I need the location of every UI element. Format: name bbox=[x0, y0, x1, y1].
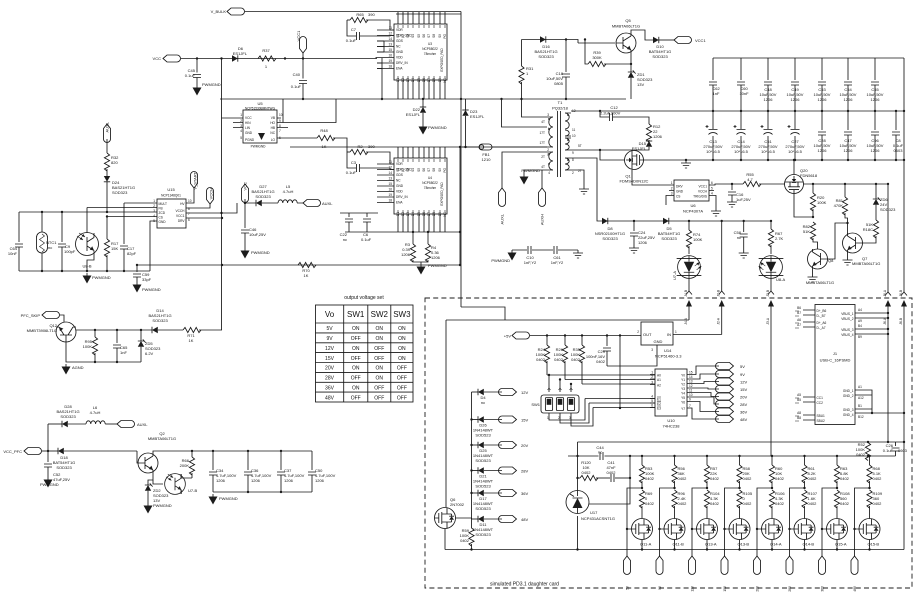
svg-text:6: 6 bbox=[188, 218, 190, 222]
mosfet Q6 2N7002 bbox=[435, 497, 465, 529]
svg-text:AGND: AGND bbox=[72, 365, 84, 370]
svg-text:1206: 1206 bbox=[401, 252, 411, 257]
wire rail to x=888 drop bbox=[887, 184, 889, 292]
resistor R66 bbox=[180, 450, 195, 478]
svg-text:48V: 48V bbox=[325, 395, 335, 401]
svg-text:ON: ON bbox=[352, 346, 360, 352]
svg-text:simulated PD3.1 daughter card: simulated PD3.1 daughter card bbox=[490, 582, 559, 588]
svg-text:U6: U6 bbox=[690, 203, 696, 208]
svg-text:0402: 0402 bbox=[554, 357, 564, 362]
wire Q13-A gate to pill bbox=[692, 488, 707, 556]
wire Y outputs to voltage pills bbox=[687, 366, 719, 375]
svg-text:FB: FB bbox=[159, 207, 163, 211]
svg-text:OFF: OFF bbox=[351, 356, 361, 362]
resistor R57 bbox=[704, 455, 719, 488]
svg-text:36V: 36V bbox=[325, 386, 335, 392]
svg-text:1206: 1206 bbox=[638, 240, 648, 245]
capacitor C48 bbox=[760, 58, 777, 111]
capacitor C13 electrolytic bbox=[703, 111, 722, 160]
wire U14 GND bbox=[607, 345, 657, 366]
svg-text:0805: 0805 bbox=[554, 81, 564, 86]
svg-text:SOD323: SOD323 bbox=[112, 190, 128, 195]
svg-text:T1: T1 bbox=[558, 100, 563, 105]
svg-text:11: 11 bbox=[389, 160, 393, 164]
wire feeder from main into card bbox=[446, 307, 689, 320]
svg-text:nc: nc bbox=[481, 400, 485, 405]
svg-text:E1: E1 bbox=[657, 398, 661, 402]
svg-text:0402: 0402 bbox=[856, 452, 866, 457]
svg-text:PWMGND: PWMGND bbox=[92, 275, 111, 280]
svg-text:NCP51530BMNTWG: NCP51530BMNTWG bbox=[245, 107, 276, 111]
svg-text:10: 10 bbox=[689, 393, 693, 397]
bus y=232 under U4 bbox=[345, 231, 460, 233]
svg-text:1: 1 bbox=[153, 199, 155, 203]
svg-text:0402: 0402 bbox=[808, 476, 818, 481]
svg-text:ON: ON bbox=[376, 326, 384, 332]
wire Q1 gate to U6 DRV bbox=[632, 170, 674, 185]
svg-text:20V: 20V bbox=[756, 585, 760, 592]
svg-text:ON: ON bbox=[376, 366, 384, 372]
wire +5V to E3 drop bbox=[619, 336, 621, 409]
wire U14 IN to arrow bbox=[673, 334, 722, 336]
wire R52/C26 GND tie y=442 bbox=[578, 441, 905, 443]
wire bus99 to primary tap bbox=[502, 99, 548, 127]
wire Q2 emitter down to ZD2 bbox=[148, 473, 153, 485]
capacitor C59 bbox=[133, 264, 161, 293]
svg-text:14: 14 bbox=[388, 171, 392, 175]
resistor R74 bbox=[686, 220, 702, 254]
diode D27 bbox=[251, 184, 274, 206]
wire U5 LO to R48 bbox=[277, 137, 317, 139]
wire pin2 FB left bbox=[87, 207, 157, 209]
svg-text:390: 390 bbox=[368, 144, 375, 149]
wire AUX rail y=203 bbox=[245, 202, 303, 204]
wire pin5 GND down bbox=[150, 221, 157, 271]
svg-text:A1: A1 bbox=[657, 378, 661, 382]
wire C41 up to rail bbox=[629, 456, 631, 478]
diode D17 ladder 36V bbox=[470, 490, 528, 512]
bus y=147 lower primary bbox=[290, 146, 547, 148]
diode D4 ladder 12V bbox=[472, 389, 529, 406]
svg-text:nc: nc bbox=[48, 245, 52, 250]
svg-text:4T: 4T bbox=[541, 120, 545, 124]
resistor R59 bbox=[460, 528, 474, 550]
wire pin3 ZCD left bus bbox=[19, 211, 157, 213]
svg-text:R18C: R18C bbox=[863, 227, 873, 232]
ground earth GND bus bbox=[681, 159, 691, 168]
capacitor C50 bbox=[308, 451, 336, 492]
svg-text:GND_3: GND_3 bbox=[843, 408, 854, 412]
svg-text:1206: 1206 bbox=[216, 478, 226, 483]
svg-text:200K: 200K bbox=[180, 463, 190, 468]
svg-text:0.1uF: 0.1uF bbox=[361, 237, 372, 242]
svg-text:VCC1: VCC1 bbox=[695, 38, 706, 43]
svg-text:17T: 17T bbox=[540, 131, 546, 135]
node pill 5V column bbox=[624, 556, 631, 590]
capacitor C24 bbox=[629, 220, 655, 253]
capacitor C45 bbox=[185, 57, 201, 85]
diode D8 bbox=[595, 218, 625, 241]
ferrite bead FB1 bbox=[462, 144, 547, 162]
opto LED U7-A bbox=[672, 256, 701, 281]
wire U5 HO/HB to right bbox=[277, 99, 336, 128]
wire x=721.7 drop bbox=[721, 221, 723, 291]
capacitor C55 bbox=[867, 58, 884, 111]
resistor R108 bbox=[834, 487, 850, 519]
mosfet Q1 FDMS4D0N12C bbox=[620, 151, 649, 184]
svg-text:OFF: OFF bbox=[351, 336, 361, 342]
svg-text:A9: A9 bbox=[858, 319, 862, 323]
svg-text:4: 4 bbox=[548, 171, 550, 175]
svg-text:S6: S6 bbox=[422, 168, 426, 172]
svg-text:A8: A8 bbox=[797, 411, 801, 415]
resistor R82 bbox=[803, 222, 818, 249]
ground PWMGND transformer bbox=[520, 168, 541, 185]
resistor R105 bbox=[737, 487, 753, 519]
resistor R3 bbox=[401, 231, 421, 262]
wire A1 line bbox=[565, 379, 655, 381]
capacitor C10 bbox=[524, 246, 537, 265]
svg-text:CS: CS bbox=[159, 216, 163, 220]
wire VDD/DRV_IN connections bbox=[376, 41, 384, 99]
wire 2T pin8 down to D8 rail bbox=[571, 158, 599, 221]
svg-text:4T: 4T bbox=[541, 165, 545, 169]
wire Q13-B source to bus bbox=[739, 540, 741, 550]
svg-text:V_BULK: V_BULK bbox=[211, 9, 227, 14]
svg-text:1206: 1206 bbox=[315, 478, 325, 483]
svg-text:CC2: CC2 bbox=[817, 401, 824, 405]
svg-text:2: 2 bbox=[671, 187, 673, 191]
svg-text:R37: R37 bbox=[262, 48, 270, 53]
node VCC connector bbox=[153, 55, 181, 62]
svg-text:6: 6 bbox=[651, 404, 653, 408]
capacitor C3 bbox=[346, 152, 394, 175]
svg-text:18: 18 bbox=[388, 199, 392, 203]
svg-text:3: 3 bbox=[651, 381, 653, 385]
ground earth Q7 bbox=[843, 253, 853, 265]
svg-text:A12: A12 bbox=[858, 396, 864, 400]
capacitor C36 bbox=[244, 450, 272, 492]
ground PWMGND cap bank bbox=[209, 494, 238, 505]
svg-text:S8: S8 bbox=[432, 168, 436, 172]
transistor Q2 MMBTA06LT1G bbox=[137, 431, 176, 473]
svg-text:ON: ON bbox=[398, 356, 406, 362]
transistor Q8 MMBTA06LT1G bbox=[806, 249, 834, 285]
shunt ref U17 NCP431 bbox=[566, 491, 615, 522]
svg-text:AUXL: AUXL bbox=[500, 213, 505, 224]
svg-text:SOD323: SOD323 bbox=[652, 54, 668, 59]
svg-text:Q5: Q5 bbox=[625, 18, 631, 23]
wire U15 VCC1 pin right bbox=[186, 203, 237, 213]
svg-text:28V: 28V bbox=[521, 469, 528, 474]
capacitor C6 bbox=[361, 213, 372, 242]
svg-text:S2: S2 bbox=[401, 168, 405, 172]
svg-text:GND: GND bbox=[159, 220, 167, 224]
svg-text:AUXL: AUXL bbox=[322, 201, 333, 206]
svg-text:100K: 100K bbox=[83, 344, 93, 349]
svg-text:B1: B1 bbox=[858, 404, 862, 408]
wire rail y=221 bbox=[599, 220, 771, 222]
svg-text:19: 19 bbox=[388, 193, 392, 197]
svg-text:13V: 13V bbox=[637, 82, 644, 87]
svg-text:AUXL: AUXL bbox=[105, 121, 110, 132]
svg-text:S8: S8 bbox=[432, 34, 436, 38]
svg-text:15: 15 bbox=[388, 48, 392, 52]
svg-text:48V: 48V bbox=[521, 517, 528, 522]
wire Q14-B gate to pill bbox=[790, 488, 805, 556]
mosfet Q14-A bbox=[762, 519, 783, 547]
capacitor C52 bbox=[40, 451, 70, 488]
svg-text:78mohm: 78mohm bbox=[424, 52, 437, 56]
ic U10 74HC238 bbox=[650, 369, 693, 429]
svg-text:GND_2: GND_2 bbox=[843, 394, 854, 398]
wire SW1 tops to A lines bbox=[549, 375, 571, 392]
diode D11 ladder 48V bbox=[472, 516, 529, 538]
node 5V..48V pills stack bbox=[716, 363, 748, 423]
mosfet Q15-B bbox=[859, 519, 880, 547]
svg-text:NCP431ACSNT1G: NCP431ACSNT1G bbox=[581, 516, 615, 521]
svg-text:10*16.5: 10*16.5 bbox=[788, 149, 803, 154]
node pill 48V column bbox=[851, 556, 858, 592]
svg-text:S3: S3 bbox=[406, 168, 410, 172]
svg-text:1: 1 bbox=[671, 181, 673, 185]
wire Q13-B gate to pill bbox=[725, 488, 740, 556]
wire U17 anode to bus bbox=[577, 516, 579, 550]
wire 2T pin2 to gnd bbox=[571, 170, 584, 186]
svg-text:20V: 20V bbox=[740, 395, 747, 400]
svg-text:20V: 20V bbox=[521, 443, 528, 448]
node AUXL pill vertical bbox=[499, 188, 506, 224]
svg-text:OFF: OFF bbox=[374, 346, 384, 352]
svg-text:MULT: MULT bbox=[159, 202, 167, 206]
mosfet Q13-B bbox=[729, 519, 750, 547]
zener ZD6 bbox=[873, 183, 896, 220]
resistor R52 bbox=[856, 442, 871, 461]
capacitor C46 bbox=[241, 203, 270, 259]
svg-text:12V: 12V bbox=[325, 346, 335, 352]
svg-text:A6: A6 bbox=[797, 318, 801, 322]
opto transistor U7-B bbox=[165, 474, 198, 495]
svg-text:PWMGND: PWMGND bbox=[153, 503, 172, 508]
svg-text:OFF: OFF bbox=[397, 376, 407, 382]
svg-text:A7: A7 bbox=[797, 323, 801, 327]
svg-text:51K: 51K bbox=[803, 229, 810, 234]
capacitor C49 bbox=[787, 58, 804, 111]
svg-text:3: 3 bbox=[671, 192, 673, 196]
svg-text:Y4: Y4 bbox=[681, 392, 685, 396]
svg-text:B8: B8 bbox=[797, 416, 801, 420]
wire Q15-B gate to pill bbox=[855, 488, 870, 556]
svg-text:2.2uF,200V: 2.2uF,200V bbox=[600, 111, 621, 116]
resistor R26 bbox=[554, 334, 568, 379]
svg-text:output voltage set: output voltage set bbox=[344, 295, 384, 301]
svg-text:USB-C_16PSMD: USB-C_16PSMD bbox=[820, 358, 851, 363]
ic U3 left pin stubs bbox=[377, 26, 394, 69]
transformer T1 secondary windings bbox=[565, 109, 582, 175]
svg-text:PWMGND: PWMGND bbox=[491, 258, 510, 263]
svg-text:GND: GND bbox=[396, 184, 404, 188]
svg-text:18: 18 bbox=[388, 65, 392, 69]
wire x888 VBUS down to rail456 bbox=[887, 313, 889, 442]
svg-text:0402: 0402 bbox=[873, 501, 883, 506]
svg-text:HB: HB bbox=[271, 126, 275, 130]
mosfet Q11-B bbox=[664, 519, 685, 547]
svg-text:9V: 9V bbox=[326, 336, 333, 342]
svg-text:1uF,25V: 1uF,25V bbox=[736, 197, 751, 202]
card up arrows through border bbox=[686, 300, 692, 320]
svg-text:DRV: DRV bbox=[178, 219, 186, 223]
svg-text:CS: CS bbox=[676, 195, 680, 199]
svg-text:FDN5618: FDN5618 bbox=[800, 173, 818, 178]
ic U4 bottom pins bbox=[398, 214, 445, 232]
wire Q14-A gate to pill bbox=[757, 488, 772, 556]
svg-text:0.1uF: 0.1uF bbox=[185, 73, 196, 78]
svg-text:J6-B: J6-B bbox=[899, 290, 903, 297]
svg-text:1nF: 1nF bbox=[713, 91, 720, 96]
resistor R31 column bbox=[519, 40, 547, 118]
svg-text:36V: 36V bbox=[821, 585, 825, 592]
svg-text:S1: S1 bbox=[396, 168, 400, 172]
capacitor C47 bbox=[840, 111, 857, 160]
svg-text:D-_A7: D-_A7 bbox=[817, 326, 826, 330]
wire card left drop to Q6 bbox=[445, 320, 447, 507]
ground PWMGND Y-caps bbox=[491, 250, 516, 263]
svg-text:MMBTA06LT1G: MMBTA06LT1G bbox=[612, 24, 640, 29]
svg-text:0.1uF: 0.1uF bbox=[291, 84, 302, 89]
svg-text:15K: 15K bbox=[111, 246, 118, 251]
diode D25 ladder 20V bbox=[470, 442, 528, 464]
svg-text:1: 1 bbox=[240, 113, 242, 117]
svg-text:GND_1: GND_1 bbox=[843, 389, 854, 393]
svg-text:S6: S6 bbox=[422, 34, 426, 38]
svg-text:PWMGND: PWMGND bbox=[521, 168, 540, 173]
svg-text:Y3: Y3 bbox=[681, 387, 685, 391]
svg-text:SW2: SW2 bbox=[371, 310, 389, 319]
svg-text:15V: 15V bbox=[723, 585, 727, 592]
capacitor C60 bbox=[737, 58, 749, 111]
wire U6 CS stub bbox=[666, 191, 674, 206]
ground AGND bbox=[62, 364, 84, 375]
svg-text:10*16.5: 10*16.5 bbox=[734, 149, 749, 154]
svg-text:1206: 1206 bbox=[818, 148, 828, 153]
bus card bottom y=548 bbox=[445, 549, 904, 551]
svg-text:S5: S5 bbox=[417, 168, 421, 172]
capacitor C65 bbox=[113, 329, 128, 362]
ic U3 NCP58022 box bbox=[394, 24, 447, 80]
ground earth U6 bbox=[711, 208, 721, 216]
svg-text:VCC: VCC bbox=[243, 182, 248, 191]
wire cap bank right edge vertical bbox=[903, 58, 905, 292]
svg-text:S1: S1 bbox=[396, 34, 400, 38]
capacitor C40 bbox=[291, 59, 307, 100]
svg-text:15: 15 bbox=[689, 371, 693, 375]
capacitor C7 bbox=[346, 20, 394, 43]
bus y=160 cap bank bottom bbox=[700, 159, 904, 161]
svg-text:11: 11 bbox=[572, 128, 576, 132]
svg-text:C12: C12 bbox=[610, 105, 618, 110]
svg-text:B12: B12 bbox=[858, 415, 864, 419]
svg-text:D+_A6: D+_A6 bbox=[817, 321, 827, 325]
zener ZD1 bbox=[628, 70, 653, 99]
svg-text:1: 1 bbox=[651, 371, 653, 375]
svg-text:0402: 0402 bbox=[710, 501, 720, 506]
resistor R61 bbox=[802, 455, 817, 488]
svg-text:VCCH: VCCH bbox=[698, 190, 708, 194]
svg-text:ES1JFL: ES1JFL bbox=[470, 114, 485, 119]
resistor R67 bbox=[768, 220, 783, 254]
svg-text:GND: GND bbox=[396, 50, 404, 54]
svg-text:ON: ON bbox=[376, 376, 384, 382]
wire y=265 long horizontal bbox=[137, 264, 460, 266]
svg-text:2: 2 bbox=[651, 375, 653, 379]
svg-text:SOD523: SOD523 bbox=[475, 458, 491, 463]
svg-text:10uF,25V: 10uF,25V bbox=[249, 232, 266, 237]
resistor R68 bbox=[867, 455, 882, 488]
svg-text:DRV: DRV bbox=[676, 185, 684, 189]
svg-text:1210: 1210 bbox=[482, 157, 492, 162]
svg-text:0402: 0402 bbox=[460, 538, 470, 543]
svg-text:12V: 12V bbox=[691, 585, 695, 592]
wire Q15-A gate to pill bbox=[822, 488, 837, 556]
svg-text:A0: A0 bbox=[657, 374, 661, 378]
svg-text:J6-A: J6-A bbox=[883, 289, 887, 296]
wire U6 VCC1 to rail bbox=[709, 184, 743, 185]
svg-text:J2-A: J2-A bbox=[717, 317, 721, 324]
svg-text:SOD323: SOD323 bbox=[255, 194, 271, 199]
svg-text:1206: 1206 bbox=[791, 97, 801, 102]
wire ladder feed vertical bbox=[471, 392, 473, 519]
wire Q11-A source to bus bbox=[641, 540, 643, 550]
svg-text:A2: A2 bbox=[657, 384, 661, 388]
wire U5 left stubs bbox=[222, 118, 244, 128]
svg-text:SOD523: SOD523 bbox=[475, 532, 491, 537]
svg-text:V_START: V_START bbox=[193, 171, 198, 189]
wire Q20 right rail y=184 bbox=[804, 183, 889, 185]
bus y=58 cap bank top bbox=[713, 57, 904, 59]
svg-text:SOD323: SOD323 bbox=[60, 414, 76, 419]
svg-text:J3-A: J3-A bbox=[766, 317, 770, 324]
svg-text:PWMGND: PWMGND bbox=[251, 145, 267, 149]
svg-text:NCP58022: NCP58022 bbox=[422, 181, 438, 185]
svg-text:PWMGND: PWMGND bbox=[219, 496, 238, 501]
svg-text:VCC: VCC bbox=[245, 116, 252, 120]
svg-text:PWMGND: PWMGND bbox=[40, 482, 59, 487]
svg-text:VB: VB bbox=[271, 116, 275, 120]
svg-text:5V: 5V bbox=[740, 364, 745, 369]
svg-text:NCP58022: NCP58022 bbox=[422, 47, 438, 51]
svg-text:4.7uH: 4.7uH bbox=[90, 410, 101, 415]
svg-text:100K: 100K bbox=[817, 200, 827, 205]
wire Q5 collector to D10 bbox=[631, 30, 653, 40]
opto transistor U8-B bbox=[76, 208, 99, 272]
svg-text:0603: 0603 bbox=[898, 448, 908, 453]
rail y=456 card bbox=[568, 455, 896, 457]
svg-text:1nF,Y2: 1nF,Y2 bbox=[524, 260, 537, 265]
wire Q6 gate to R59 bbox=[456, 518, 472, 528]
svg-text:Y7: Y7 bbox=[681, 407, 685, 411]
svg-text:NC: NC bbox=[270, 131, 275, 135]
svg-text:820: 820 bbox=[111, 160, 118, 165]
thermistor NTC1 bbox=[37, 212, 58, 271]
svg-text:16: 16 bbox=[388, 54, 392, 58]
diode D15 bbox=[599, 140, 652, 151]
svg-text:nc: nc bbox=[737, 235, 741, 240]
mosfet Q14-B bbox=[794, 519, 815, 547]
svg-text:1206: 1206 bbox=[844, 148, 854, 153]
svg-text:VBUS_2: VBUS_2 bbox=[841, 317, 853, 321]
svg-text:PFC_SKIP: PFC_SKIP bbox=[21, 313, 41, 318]
svg-text:VCC1: VCC1 bbox=[176, 214, 185, 218]
